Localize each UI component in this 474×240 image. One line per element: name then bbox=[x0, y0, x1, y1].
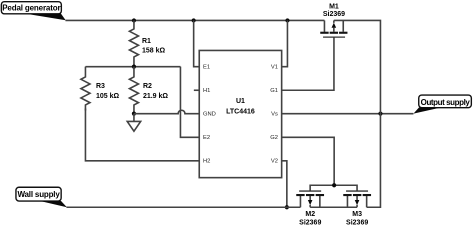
svg-text:Output supply: Output supply bbox=[421, 98, 471, 107]
junction dot: output node on right rail bbox=[378, 112, 382, 116]
svg-text:V2: V2 bbox=[271, 159, 278, 165]
transistor M3 (Si2369 P-MOSFET, bottom right) bbox=[343, 191, 371, 227]
svg-text:R2: R2 bbox=[143, 83, 152, 90]
svg-text:GND: GND bbox=[203, 111, 216, 117]
svg-text:LTC4416: LTC4416 bbox=[226, 108, 255, 115]
wire: R3 bottom down and across to pin H2 bbox=[85, 108, 200, 160]
svg-text:H2: H2 bbox=[203, 159, 210, 165]
svg-text:E2: E2 bbox=[203, 135, 210, 141]
svg-text:Pedal generator: Pedal generator bbox=[2, 4, 60, 13]
wire: E1 feed from top rail down to pin E1 bbox=[194, 20, 200, 66]
wire: E2 feed from resistor node down to pin E2 bbox=[180, 67, 200, 138]
svg-text:R3: R3 bbox=[96, 83, 105, 90]
junction dot: R2 bottom / GND node bbox=[132, 112, 136, 116]
svg-text:G1: G1 bbox=[270, 88, 278, 94]
wire: node from R3 top across R1/R2 junction to E2 feed bbox=[85, 66, 180, 68]
svg-text:V1: V1 bbox=[271, 64, 278, 70]
resistor R2 bbox=[129, 67, 168, 114]
svg-text:M1: M1 bbox=[329, 3, 339, 10]
net tag: Pedal generator bbox=[1, 2, 65, 21]
svg-text:G2: G2 bbox=[270, 135, 278, 141]
wire: G1 pin to M1 gate bbox=[282, 37, 334, 90]
transistor M2 (Si2369 P-MOSFET, bottom left) bbox=[296, 191, 324, 227]
junction dot: V2 on wall rail bbox=[285, 205, 289, 209]
junction dot: V1 feed on top rail bbox=[285, 18, 289, 22]
svg-text:E1: E1 bbox=[203, 64, 210, 70]
svg-text:Si2369: Si2369 bbox=[323, 11, 345, 18]
ground bbox=[127, 114, 140, 132]
svg-text:158 kΩ: 158 kΩ bbox=[142, 47, 166, 54]
svg-text:U1: U1 bbox=[236, 98, 245, 105]
resistor R3 bbox=[81, 67, 120, 111]
svg-text:R1: R1 bbox=[142, 38, 151, 45]
svg-text:M3: M3 bbox=[352, 211, 362, 218]
IC U1 LTC4416 bbox=[199, 50, 281, 177]
svg-text:H1: H1 bbox=[203, 88, 210, 94]
junction dot: R1 top on top rail bbox=[132, 18, 136, 22]
wire: H1 pin stub (unconnected) bbox=[194, 89, 200, 91]
wire: Vs pin to output node bbox=[282, 113, 414, 115]
svg-text:21.9 kΩ: 21.9 kΩ bbox=[143, 93, 168, 100]
junction dot: E1 feed on top rail bbox=[192, 18, 196, 22]
junction dot: G2 on gate connect line bbox=[332, 183, 336, 187]
svg-text:Si2369: Si2369 bbox=[346, 220, 368, 227]
transistor M1 (Si2369 P-MOSFET, top) bbox=[320, 3, 347, 37]
wire: M2 drain to M3 source node segment bbox=[310, 206, 357, 208]
wire: GND node to pin GND with hop over E2 feed bbox=[134, 110, 200, 113]
wire: V2 pin down to wall rail bbox=[282, 161, 287, 207]
junction dot: R1 bottom / R2 top bbox=[132, 65, 136, 69]
svg-text:105 kΩ: 105 kΩ bbox=[96, 93, 120, 100]
wire: gate connect line between M2 and M3 gates bbox=[310, 185, 357, 191]
svg-text:M2: M2 bbox=[305, 211, 315, 218]
svg-text:Si2369: Si2369 bbox=[299, 220, 321, 227]
net tag: Wall supply bbox=[16, 187, 67, 207]
net tag: Output supply bbox=[413, 95, 471, 114]
resistor R1 bbox=[129, 20, 165, 66]
svg-text:Vs: Vs bbox=[271, 111, 278, 117]
wire: V1 pin up to top rail bbox=[282, 20, 288, 66]
wire: wall rail from Wall supply tag to M2 source bbox=[66, 206, 300, 208]
wire: M1 drain rail to right vertical rail down to M3 drain bbox=[334, 20, 381, 207]
wire: top rail from Pedal generator to M1 source bbox=[65, 19, 324, 21]
wire: G2 pin right and down to M2/M3 gate node bbox=[282, 137, 335, 185]
svg-text:Wall supply: Wall supply bbox=[17, 190, 60, 199]
